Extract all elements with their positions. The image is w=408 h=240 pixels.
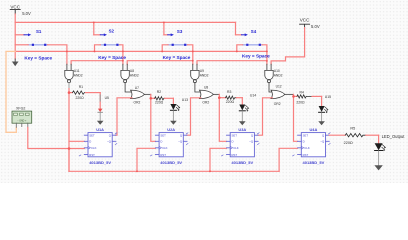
svg-text:R5: R5 — [350, 127, 355, 131]
wire clock riser to U2A — [137, 148, 155, 171]
svg-text:R1: R1 — [79, 85, 83, 89]
wire S2 feed down — [93, 22, 95, 34]
LED U15 — [319, 96, 328, 121]
switch S4 contact bar — [243, 44, 262, 46]
svg-text:RST: RST — [160, 153, 166, 157]
wire orange ground net to XFG2 — [6, 51, 16, 132]
switch S4 lever arm — [236, 33, 248, 36]
svg-text:U2A: U2A — [167, 127, 175, 132]
wire S1 left lead — [15, 44, 28, 46]
switch S2 contact bar — [100, 44, 119, 46]
or gate U12 — [269, 83, 294, 99]
svg-text:D: D — [89, 140, 91, 144]
wire U3A.Q to U12 input — [258, 98, 272, 135]
svg-text:4013BD_5V: 4013BD_5V — [303, 160, 325, 165]
svg-text:220Ω: 220Ω — [76, 96, 85, 100]
svg-text:S1: S1 — [36, 29, 42, 34]
svg-text:CLK: CLK — [233, 146, 239, 150]
flip-flop U1A body — [84, 133, 116, 157]
svg-text:R2: R2 — [157, 90, 161, 94]
node J2 vertical to FF U2A — [151, 94, 156, 141]
wire S1 feed down — [14, 22, 16, 44]
power symbol VCC1 — [10, 5, 21, 14]
wire VCC1 stem down to bus — [14, 14, 16, 22]
svg-text:CLK: CLK — [162, 146, 168, 150]
svg-text:5.0V: 5.0V — [311, 24, 320, 29]
nand gate U9 — [191, 64, 199, 83]
ground above U2A — [170, 121, 177, 125]
svg-text:4013BD_5V: 4013BD_5V — [89, 160, 111, 165]
wire U4A.Q to R5 — [329, 134, 345, 136]
LED U13 — [170, 98, 179, 121]
wire S4 left lead to ground bus — [237, 45, 243, 52]
flip-flop U2A body — [155, 133, 187, 157]
wire bottom bus y=171.3 — [69, 170, 279, 172]
nand gate U8 — [121, 64, 129, 83]
svg-text:U8: U8 — [204, 86, 208, 90]
svg-text:AND2: AND2 — [274, 73, 283, 77]
svg-text:SET: SET — [303, 134, 309, 138]
wire S4 output to NAND U10 — [262, 45, 267, 64]
function generator XFG2 — [12, 111, 32, 127]
wire S3 feed down — [163, 22, 165, 34]
wire S3 output to NAND U9 — [188, 45, 193, 64]
svg-text:Key = Space: Key = Space — [24, 56, 52, 61]
svg-text:OR2: OR2 — [134, 100, 141, 104]
svg-text:Key = Space: Key = Space — [98, 55, 126, 60]
nand gate U11 — [65, 64, 73, 83]
nand gate U10 — [265, 64, 273, 83]
svg-text:RST: RST — [232, 153, 238, 157]
svg-text:U7: U7 — [135, 86, 139, 90]
or gate U7 — [125, 83, 151, 99]
node J1 vertical to FF U1A — [68, 93, 70, 172]
svg-text:VCC: VCC — [10, 5, 20, 10]
node J3 vertical to FF U3A — [219, 94, 226, 141]
svg-text:U12: U12 — [276, 84, 282, 88]
svg-text:RST: RST — [303, 153, 309, 157]
LED U14 — [239, 98, 248, 122]
svg-text:U13: U13 — [182, 98, 188, 102]
svg-text:U1A: U1A — [96, 127, 104, 132]
wire clock riser to U4A — [279, 148, 298, 171]
wire clock riser to U3A — [210, 148, 227, 171]
svg-text:LED_Output: LED_Output — [382, 134, 406, 139]
svg-text:VCC: VCC — [300, 18, 310, 23]
svg-text:AND2: AND2 — [130, 73, 139, 77]
svg-text:4013BD_5V: 4013BD_5V — [160, 160, 182, 165]
svg-text:U4A: U4A — [310, 127, 318, 132]
wire U11 output to node R1 — [68, 83, 70, 93]
svg-text:4013BD_5V: 4013BD_5V — [231, 160, 253, 165]
svg-text:220Ω: 220Ω — [344, 141, 353, 145]
svg-text:OR2: OR2 — [274, 102, 281, 106]
wire clock drop to bottom bus — [68, 149, 70, 172]
wire gate bus U8.B to S3 — [127, 61, 193, 64]
svg-text:R4: R4 — [300, 90, 304, 94]
resistor R3 — [219, 96, 242, 99]
svg-text:220Ω: 220Ω — [155, 101, 164, 105]
resistor R1 — [69, 91, 100, 94]
svg-text:D: D — [232, 140, 234, 144]
wire gate bus U11.B to S2 — [71, 61, 123, 64]
svg-text:D: D — [303, 140, 305, 144]
ground above U1A — [97, 121, 104, 125]
LED U5 — [98, 93, 103, 121]
svg-text:U14: U14 — [250, 93, 256, 97]
svg-text:S4: S4 — [251, 29, 257, 34]
LED output diode — [375, 135, 386, 165]
svg-text:5.0V: 5.0V — [22, 11, 31, 16]
switch S3 contact bar — [168, 44, 187, 46]
ground above U4A — [318, 121, 325, 125]
wire S3 left lead to ground bus — [162, 45, 168, 52]
svg-text:R3: R3 — [227, 90, 231, 94]
wire U2A.Q to U8B input — [187, 98, 201, 135]
flip-flop U3A body — [227, 133, 259, 157]
svg-text:Key = Space: Key = Space — [242, 53, 270, 58]
ground symbol under S1 — [12, 59, 19, 66]
svg-text:SET: SET — [89, 134, 95, 138]
svg-text:AND2: AND2 — [200, 73, 209, 77]
wire S2 output to NAND U8 — [120, 45, 123, 64]
wire S1 output to NAND U11 — [48, 45, 67, 64]
pin number ticks on flip-flops — [79, 133, 330, 156]
svg-text:CLK: CLK — [304, 146, 310, 150]
svg-text:D: D — [160, 140, 162, 144]
resistor R2 — [151, 97, 174, 100]
svg-text:U5: U5 — [105, 96, 109, 100]
wire VCC2 to NAND U10 input — [271, 28, 305, 65]
wire U1A.Q to U7 input — [116, 98, 132, 135]
svg-text:220Ω: 220Ω — [296, 100, 305, 104]
power symbol VCC2 — [300, 18, 311, 28]
wire S4 feed down — [235, 22, 237, 34]
resistor R5 — [345, 134, 378, 137]
flip-flop U4A body — [298, 133, 330, 157]
svg-text:OR2: OR2 — [202, 100, 209, 104]
wire S1 common down to ground — [14, 45, 16, 59]
svg-text:SET: SET — [232, 134, 238, 138]
wire ground bus y=51.4 — [15, 50, 267, 52]
svg-text:S3: S3 — [177, 29, 183, 34]
switch S3 lever arm — [164, 33, 174, 36]
wire S2 left lead to ground bus — [95, 45, 101, 52]
node J4 vertical to FF U4A — [294, 94, 298, 141]
or gate U8B — [195, 83, 219, 99]
switch S2 lever arm — [94, 33, 107, 36]
svg-text:XFG2: XFG2 — [16, 106, 25, 110]
svg-text:RST: RST — [89, 153, 95, 157]
wire J1 to D input of U1A — [69, 140, 84, 142]
svg-text:CLK: CLK — [91, 146, 97, 150]
svg-text:U3A: U3A — [238, 127, 246, 132]
svg-text:− GND +: − GND + — [17, 120, 27, 122]
resistor R4 — [294, 95, 322, 98]
wire top bus y=22.4 — [15, 21, 235, 23]
svg-text:S2: S2 — [109, 29, 115, 34]
wire XFG2 output to clock line — [28, 127, 85, 148]
svg-text:AND2: AND2 — [74, 73, 83, 77]
switch S1 lever arm — [15, 33, 31, 36]
switch S1 contact bar — [28, 44, 47, 46]
svg-text:SET: SET — [160, 134, 166, 138]
wire gate bus U9.B to S4 — [197, 61, 267, 64]
svg-text:220Ω: 220Ω — [226, 100, 235, 104]
ground below output LED — [374, 165, 382, 170]
svg-text:U15: U15 — [325, 95, 331, 99]
svg-text:Key = Space: Key = Space — [163, 55, 191, 60]
ground above U3A — [239, 121, 246, 125]
